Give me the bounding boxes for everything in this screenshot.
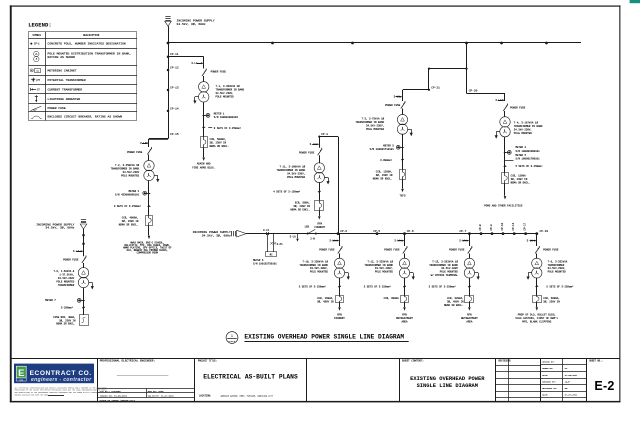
svg-text:POWER FUSE: POWER FUSE — [211, 71, 227, 74]
svg-text:DATE:: DATE: — [542, 393, 548, 396]
svg-text:POLE MOUNTED: POLE MOUNTED — [56, 280, 74, 283]
svg-text:ADMIN AND: ADMIN AND — [197, 163, 211, 166]
svg-text:5 SETS OF 3-250mm²: 5 SETS OF 3-250mm² — [516, 165, 544, 168]
svg-text:3-200mm²: 3-200mm² — [61, 306, 74, 309]
svg-text:(PT: (PT — [36, 79, 41, 82]
svg-text:SYMBOL: SYMBOL — [32, 34, 41, 37]
svg-text:SHEET NO.:: SHEET NO.: — [589, 360, 603, 363]
svg-text:POWER FUSE: POWER FUSE — [510, 107, 526, 110]
svg-text:1-37.5kVA,: 1-37.5kVA, — [59, 273, 74, 276]
svg-text:NEMA 3R ENCL.: NEMA 3R ENCL. — [56, 323, 75, 326]
svg-text:PROFESSIONAL ELECTRICAL ENGINE: PROFESSIONAL ELECTRICAL ENGINEER: — [100, 360, 155, 363]
svg-text:POLE MOUNTED: POLE MOUNTED — [216, 95, 235, 98]
svg-text:CCB, 3000A: CCB, 3000A — [384, 297, 400, 300]
svg-text:34.5kV-230V: 34.5kV-230V — [58, 277, 75, 280]
svg-text:DESCRIPTION: DESCRIPTION — [83, 34, 100, 37]
svg-text:CP-10: CP-10 — [501, 222, 504, 230]
svg-text:FIRE ARMS BLDG.: FIRE ARMS BLDG. — [192, 166, 215, 169]
svg-text:POLE MOUNTED: POLE MOUNTED — [121, 175, 140, 178]
svg-text:POWER FUSE: POWER FUSE — [127, 151, 143, 154]
svg-text:NEMA 3R ENCL.: NEMA 3R ENCL. — [373, 178, 393, 181]
svg-text:POLE MOUNTED: POLE MOUNTED — [548, 271, 567, 274]
svg-text:EXISTING OVERHEAD POWER: EXISTING OVERHEAD POWER — [410, 376, 485, 382]
svg-text:CP-3: CP-3 — [340, 230, 347, 233]
svg-text:METER 4: METER 4 — [516, 146, 527, 149]
svg-text:TEFD: TEFD — [400, 195, 406, 198]
svg-text:POWER FUSE: POWER FUSE — [385, 104, 401, 107]
svg-text:POLE MOUNTED: POLE MOUNTED — [366, 128, 385, 131]
svg-text:CURRENT TRANSFORMER: CURRENT TRANSFORMER — [48, 88, 83, 92]
svg-text:CP-17: CP-17 — [524, 222, 527, 230]
svg-text:COMPRESSOR ROOM: COMPRESSOR ROOM — [137, 252, 159, 255]
svg-text:CP-18: CP-18 — [540, 230, 549, 233]
svg-text:NEMA 3R ENCL.: NEMA 3R ENCL. — [444, 304, 464, 307]
svg-text:POWER FUSE: POWER FUSE — [384, 249, 400, 252]
svg-text:3-LA: 3-LA — [290, 236, 297, 239]
svg-text:REVIEWED BY:: REVIEWED BY: — [542, 387, 557, 390]
svg-text:POWER FUSE: POWER FUSE — [319, 249, 335, 252]
svg-text:3Ø, 230V IN: 3Ø, 230V IN — [543, 300, 560, 303]
svg-text:TRANSFORMER: TRANSFORMER — [58, 284, 75, 287]
svg-text:W/ BYPASS TERMINAL: W/ BYPASS TERMINAL — [431, 274, 459, 277]
svg-text:LOCATION:: LOCATION: — [199, 395, 211, 398]
svg-text:3Ø, 480V IN: 3Ø, 480V IN — [317, 300, 334, 303]
svg-text:34.5kV, 3Ø, 60Hz: 34.5kV, 3Ø, 60Hz — [45, 226, 74, 230]
svg-text:07-07-2021: 07-07-2021 — [565, 393, 578, 396]
svg-text:POWER FUSE: POWER FUSE — [299, 151, 315, 154]
svg-text:3-300mm²: 3-300mm² — [380, 159, 393, 162]
svg-text:POWER FUSE: POWER FUSE — [543, 249, 559, 252]
svg-text:CP-13: CP-13 — [170, 86, 179, 89]
svg-text:NEMA 3R ENCL.: NEMA 3R ENCL. — [210, 145, 230, 148]
svg-text:E: E — [18, 368, 24, 379]
svg-text:ELECTRICAL AS-BUILT PLANS: ELECTRICAL AS-BUILT PLANS — [203, 374, 298, 381]
svg-text:3-P1: 3-P1 — [277, 243, 284, 246]
svg-text:S/N 100001700101: S/N 100001700101 — [516, 158, 541, 161]
svg-text:S/N 100192750101: S/N 100192750101 — [253, 262, 277, 265]
svg-text:NEMA 3R ENCL.: NEMA 3R ENCL. — [119, 224, 139, 227]
svg-text:T-8, 1-50kVA &: T-8, 1-50kVA & — [53, 270, 74, 273]
svg-text:S/N 453000080101: S/N 453000080101 — [115, 194, 140, 197]
svg-text:CP-8: CP-8 — [479, 224, 482, 231]
svg-text:8 SETS OF 3-250mm²: 8 SETS OF 3-250mm² — [214, 127, 242, 130]
svg-text:CP-15: CP-15 — [170, 133, 179, 136]
svg-text:POMS AND OTHER FACILITIES: POMS AND OTHER FACILITIES — [484, 204, 523, 207]
svg-text:LBS: LBS — [305, 226, 310, 229]
svg-text:4 SETS OF 3-150mm²: 4 SETS OF 3-150mm² — [273, 190, 301, 193]
svg-text:E-01-5: E-01-5 — [229, 341, 235, 343]
svg-text:ECONTRACT CO.: ECONTRACT CO. — [30, 370, 92, 377]
svg-text:ISSUED ON: 01-05-2021: ISSUED ON: 01-05-2021 — [100, 394, 128, 397]
svg-text:CP-6: CP-6 — [407, 230, 414, 233]
svg-text:34.5kV, 3Ø, 60Hz: 34.5kV, 3Ø, 60Hz — [177, 22, 206, 26]
svg-text:NEMA 3R ENCL.: NEMA 3R ENCL. — [511, 181, 531, 184]
svg-text:CHECKED BY:: CHECKED BY: — [542, 380, 556, 383]
svg-text:S/N 100001710101: S/N 100001710101 — [370, 148, 395, 151]
svg-text:CONCRETE POLE, NUMBER INDICATE: CONCRETE POLE, NUMBER INDICATES DESIGNAT… — [48, 42, 126, 46]
svg-text:LIGHTNING ARRESTER: LIGHTNING ARRESTER — [48, 97, 81, 101]
svg-text:HAVING JURISDICTION OVER THE A: HAVING JURISDICTION OVER THE AREA — [15, 393, 50, 396]
svg-text:REVISIONS: REVISIONS — [498, 360, 511, 363]
svg-text:3 SETS OF 3-250mm²: 3 SETS OF 3-250mm² — [364, 285, 392, 288]
svg-text:CP-5: CP-5 — [373, 230, 380, 233]
svg-text:METERING CABINET: METERING CABINET — [48, 69, 77, 73]
svg-text:CP-7: CP-7 — [459, 230, 466, 233]
svg-text:CP-16: CP-16 — [512, 222, 515, 230]
svg-text:POLE MOUNTED: POLE MOUNTED — [514, 132, 533, 135]
svg-text:ENCLOSED CIRCUIT BREAKER, RATI: ENCLOSED CIRCUIT BREAKER, RATING AS SHOW… — [48, 114, 123, 118]
svg-text:8 SETS OF 3-250mm²: 8 SETS OF 3-250mm² — [114, 205, 142, 208]
svg-text:CP-14: CP-14 — [170, 107, 179, 110]
svg-text:POWER FUSE: POWER FUSE — [63, 259, 79, 262]
svg-text:CP-9: CP-9 — [490, 224, 493, 231]
svg-text:07-05-2021: 07-05-2021 — [565, 374, 578, 377]
svg-text:MFR, BLANK CLIPPING: MFR, BLANK CLIPPING — [522, 320, 552, 323]
svg-text:engineers - contractor: engineers - contractor — [31, 377, 92, 383]
svg-text:SINGLE LINE DIAGRAM: SINGLE LINE DIAGRAM — [417, 383, 478, 389]
svg-text:1: 1 — [231, 333, 233, 338]
svg-text:PLACE OF ISSUE: QUEZON CITY: PLACE OF ISSUE: QUEZON CITY — [100, 399, 136, 402]
svg-text:AREA: AREA — [466, 320, 473, 323]
svg-text:VALIDITY: 11-27-2021: VALIDITY: 11-27-2021 — [148, 394, 175, 397]
svg-text:POLE MOUNTED: POLE MOUNTED — [287, 176, 306, 179]
svg-text:ARMSCOR AVENUE, BRGY. FORTUNE,: ARMSCOR AVENUE, BRGY. FORTUNE, MARIKINA … — [221, 395, 274, 398]
svg-text:DRAWN BY:: DRAWN BY: — [542, 367, 553, 370]
svg-text:JAJF: JAJF — [565, 380, 571, 383]
svg-text:LEGEND:: LEGEND: — [28, 21, 52, 28]
svg-text:POLE MOUNTED: POLE MOUNTED — [310, 271, 329, 274]
svg-text:CP-4: CP-4 — [321, 133, 328, 136]
svg-text:3-C1: 3-C1 — [263, 229, 270, 232]
svg-text:34.5kV, 3Ø, 60Hz: 34.5kV, 3Ø, 60Hz — [202, 234, 231, 238]
svg-text:RATING AS SHOWN: RATING AS SHOWN — [48, 55, 75, 59]
svg-text:PROJECT TITLE:: PROJECT TITLE: — [198, 360, 217, 363]
svg-text:SLUG CASTING, FIRST OF REM'L: SLUG CASTING, FIRST OF REM'L — [515, 316, 558, 320]
svg-text:CP-11: CP-11 — [170, 53, 179, 56]
svg-text:METER 7: METER 7 — [45, 299, 56, 302]
svg-text:POTENTIAL TRANSFORMER: POTENTIAL TRANSFORMER — [48, 78, 86, 82]
svg-text:CP-21: CP-21 — [431, 86, 440, 89]
svg-text:3 SETS OF 3-250mm²: 3 SETS OF 3-250mm² — [546, 285, 574, 288]
svg-text:CP-12: CP-12 — [170, 66, 179, 69]
svg-text:EXISTING OVERHEAD POWER SINGLE: EXISTING OVERHEAD POWER SINGLE LINE DIAG… — [244, 334, 404, 341]
svg-text:SHEET CONTENT:: SHEET CONTENT: — [402, 360, 424, 363]
svg-text:3 SETS OF 3-250mm²: 3 SETS OF 3-250mm² — [429, 285, 457, 288]
svg-text:2-W: 2-W — [310, 238, 315, 241]
svg-text:E-2: E-2 — [594, 379, 614, 393]
svg-text:S/N 100001890101: S/N 100001890101 — [516, 150, 541, 153]
svg-text:POWER FUSE: POWER FUSE — [48, 106, 66, 110]
svg-text:FOUNDRY: FOUNDRY — [314, 226, 325, 229]
svg-text:3 SETS OF 3-250mm²: 3 SETS OF 3-250mm² — [299, 285, 327, 288]
svg-text:AREA: AREA — [401, 320, 408, 323]
svg-text:REG NO: 1960: REG NO: 1960 — [148, 390, 164, 393]
svg-text:POWER FUSE: POWER FUSE — [449, 249, 465, 252]
svg-text:CP-1: CP-1 — [34, 43, 40, 46]
svg-text:POLE MOUNTED: POLE MOUNTED — [375, 271, 394, 274]
svg-text:NEMA 3R ENCL.: NEMA 3R ENCL. — [290, 209, 310, 212]
svg-text:PTR NO.: 3702839: PTR NO.: 3702839 — [100, 390, 122, 393]
svg-text:S/N 100001000102: S/N 100001000102 — [214, 116, 239, 119]
svg-text:DATE:: DATE: — [542, 374, 548, 377]
svg-text:CP-20: CP-20 — [469, 90, 478, 93]
svg-text:DESIGN BY:: DESIGN BY: — [542, 361, 554, 364]
svg-text:METER 5: METER 5 — [516, 154, 527, 157]
svg-text:FOUNDRY: FOUNDRY — [334, 317, 345, 320]
